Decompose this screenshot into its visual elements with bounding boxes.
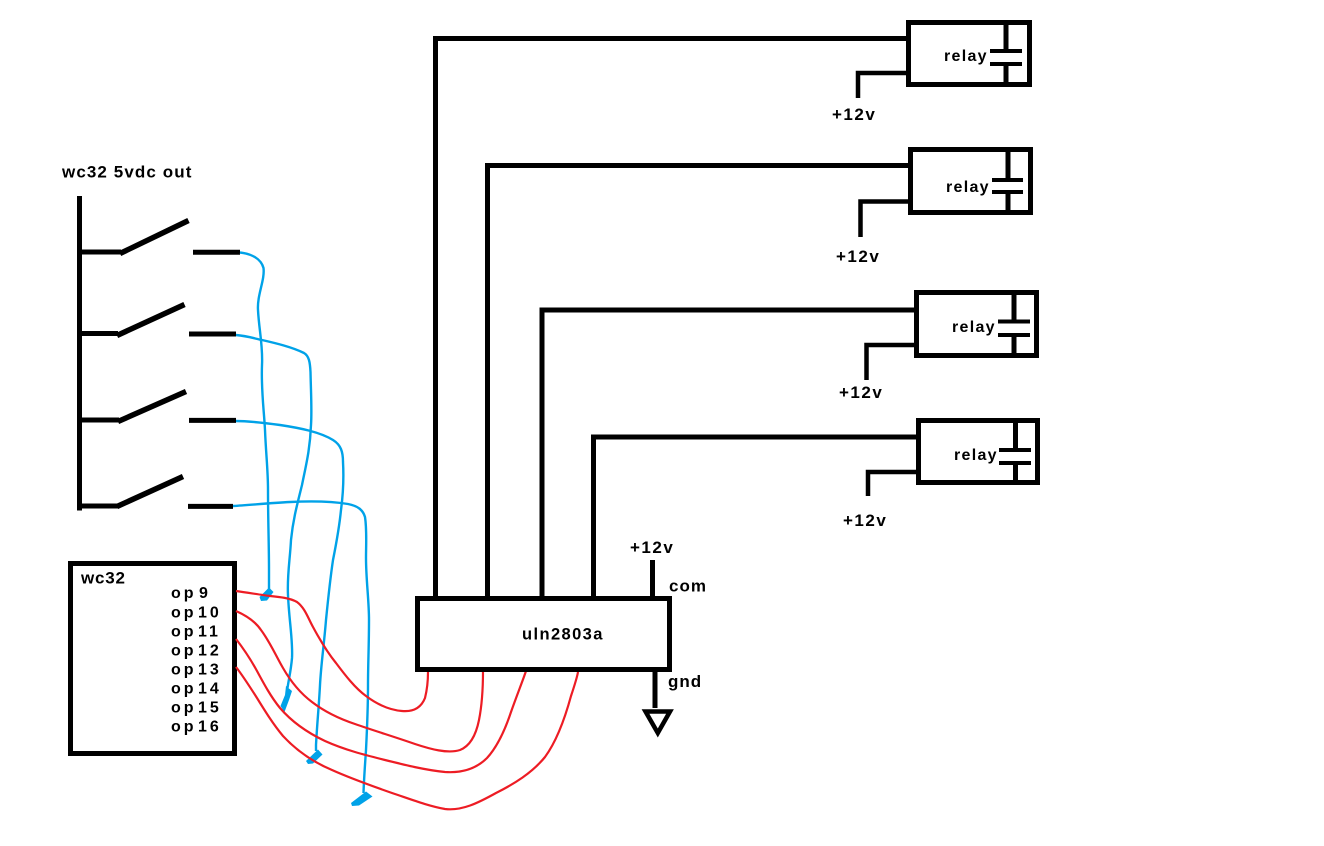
svg-text:op: op (171, 585, 197, 602)
svg-text:com: com (669, 577, 707, 596)
switch SW4 pole stub (77, 504, 118, 509)
IC U2 uln2803a box (418, 599, 670, 670)
relay K2 coil plate 1 (992, 178, 1023, 182)
svg-text:+12v: +12v (836, 247, 880, 266)
svg-text:11: 11 (198, 624, 221, 641)
switch SW3 throw terminal (189, 418, 236, 423)
svg-text:14: 14 (198, 681, 222, 698)
svg-text:16: 16 (198, 719, 222, 736)
svg-text:10: 10 (198, 605, 222, 622)
svg-text:9: 9 (199, 585, 211, 602)
svg-text:op: op (171, 643, 197, 660)
svg-text:wc32: wc32 (80, 569, 126, 588)
relay K3 coil bottom lead (1012, 337, 1017, 353)
node: blue splice blob 4 (351, 792, 373, 807)
switch SW3 pole stub (77, 418, 119, 423)
relay K2 coil top lead (1006, 151, 1011, 178)
wire: relay K1 +12v feed (858, 73, 908, 98)
relay K1 box (909, 23, 1030, 85)
svg-text:+12v: +12v (843, 511, 887, 530)
svg-text:relay: relay (944, 48, 988, 65)
relay K2 box (911, 150, 1031, 213)
svg-text:+12v: +12v (630, 538, 674, 557)
node: blue splice blob 1 (260, 588, 274, 602)
wire: uln pin 1 output to relay K1 (436, 39, 907, 599)
switch SW1 blade (120, 221, 189, 254)
wire: relay K4 +12v feed (868, 472, 918, 496)
wire: blue jumper 2 (SW2 to op11 net) (236, 335, 311, 688)
svg-text:relay: relay (946, 179, 990, 196)
relay K2 coil bottom lead (1006, 194, 1011, 210)
relay K4 box (919, 421, 1038, 483)
svg-text:op: op (171, 719, 197, 736)
wire: uln pin 3 output to relay K3 (542, 310, 916, 598)
node: blue splice blob 3 (306, 750, 323, 765)
switch SW3 blade (118, 392, 186, 422)
relay K1 coil plate 1 (990, 49, 1022, 53)
svg-text:wc32 5vdc out: wc32 5vdc out (61, 163, 193, 182)
switch SW2 pole stub (77, 331, 118, 336)
relay K3 coil plate 1 (998, 320, 1030, 324)
relay K1 coil top lead (1004, 24, 1009, 49)
switch SW1 pole stub (77, 250, 121, 255)
wire: relay K2 +12v feed (861, 202, 911, 238)
svg-text:gnd: gnd (668, 672, 702, 691)
wire: uln pin 4 output to relay K4 (594, 437, 919, 598)
svg-text:12: 12 (198, 643, 222, 660)
wire: relay K3 +12v feed (867, 345, 917, 380)
svg-text:op: op (171, 605, 197, 622)
IC U1 wc32 box (71, 564, 235, 754)
svg-text:op: op (171, 624, 197, 641)
wire: red lead op12 to uln pin 3 (236, 639, 526, 772)
wire: gnd pin stub (653, 670, 658, 708)
wire: blue jumper 4 (SW4 to op15 net) (233, 501, 369, 793)
wire: blue jumper 1 (SW1 to op9 net) (240, 253, 269, 592)
svg-text:relay: relay (952, 319, 996, 336)
svg-text:+12v: +12v (839, 383, 883, 402)
relay K2 coil plate 2 (992, 190, 1023, 194)
relay K4 coil plate 2 (999, 461, 1031, 465)
node: blue splice blob 2 (281, 686, 293, 712)
switch SW2 blade (117, 305, 185, 336)
svg-text:op: op (171, 700, 197, 717)
relay K3 coil plate 2 (998, 333, 1030, 337)
ground symbol (646, 712, 671, 734)
relay K4 coil plate 1 (999, 448, 1031, 452)
wire: blue jumper 3 (SW3 to op13 net) (236, 421, 343, 751)
wire: red lead op10 to uln pin 2 (236, 611, 483, 751)
svg-text:13: 13 (198, 662, 222, 679)
switch SW2 throw terminal (189, 332, 236, 337)
relay K4 coil bottom lead (1013, 465, 1018, 481)
wire: 5vdc supply bus (vertical) (77, 196, 82, 511)
wire: red lead op13 to uln pin 4 (236, 667, 578, 809)
switch SW1 throw terminal (193, 250, 240, 255)
relay K1 coil plate 2 (990, 62, 1022, 66)
svg-text:op: op (171, 662, 197, 679)
wire: red lead op9 to uln pin 1 (236, 591, 428, 711)
relay K4 coil top lead (1013, 422, 1018, 448)
svg-text:15: 15 (198, 700, 222, 717)
svg-text:relay: relay (954, 447, 998, 464)
switch SW4 throw terminal (188, 504, 233, 509)
svg-text:+12v: +12v (832, 105, 876, 124)
relay K1 coil bottom lead (1004, 66, 1009, 82)
switch SW4 blade (117, 477, 183, 507)
svg-text:uln2803a: uln2803a (522, 626, 604, 644)
svg-text:op: op (171, 681, 197, 698)
relay K3 box (917, 293, 1037, 356)
wire: uln pin 2 output to relay K2 (488, 166, 911, 599)
relay K3 coil top lead (1012, 294, 1017, 320)
wire: com pin stub (650, 560, 655, 598)
